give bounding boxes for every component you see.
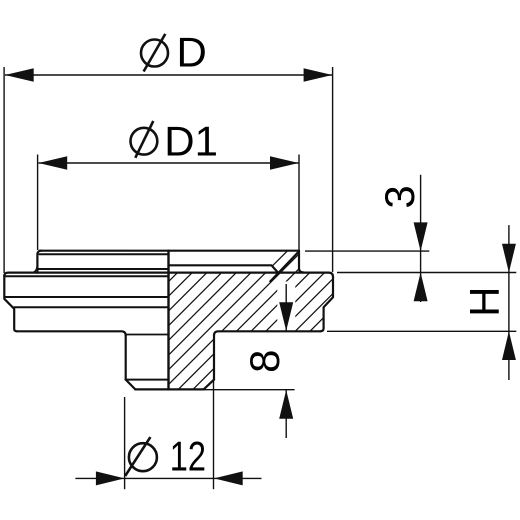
extension line left for D1	[37, 155, 39, 251]
label diameter 12	[125, 432, 206, 479]
left outer edge of rim	[4, 276, 17, 332]
dimension line 8 upper part	[285, 284, 287, 331]
arrowhead D1 left	[39, 156, 68, 170]
hub left edge	[125, 336, 127, 380]
svg-text:12: 12	[170, 432, 206, 479]
bottom face left of hub	[17, 331, 126, 335]
svg-text:H: H	[461, 287, 508, 317]
dimension 8 (hub protrusion)	[204, 284, 295, 438]
extension line right for D1	[298, 155, 300, 251]
cap band bottom edge with chamfer (section)	[169, 265, 278, 272]
rim top chamfer edge line (left view half)	[4, 275, 168, 277]
svg-text:D: D	[177, 29, 207, 76]
label diameter D	[141, 29, 207, 76]
extension line hub bottom to right	[204, 389, 295, 391]
boss base edge line (left view half)	[37, 268, 168, 270]
extension line rim top to right	[337, 272, 516, 274]
extension line left for 12	[124, 397, 126, 489]
dimension H (rim height)	[327, 225, 516, 380]
section boundary center line	[167, 251, 169, 390]
white halo behind dim 8 line over hatching	[277, 282, 295, 331]
svg-text:8: 8	[241, 350, 288, 373]
bold hatch diagonal at boss corner	[270, 252, 299, 283]
arrowhead D right	[304, 68, 333, 82]
dimension line D1	[39, 162, 299, 164]
hatching (45 deg section lines)	[30, 240, 431, 420]
hub chamfer edge line (left view half)	[126, 379, 169, 381]
extension line boss top to right	[305, 250, 429, 252]
arrowhead 8 down	[279, 302, 293, 331]
dimension 12 (hub diameter)	[75, 381, 261, 489]
extension line bottom face to right	[327, 330, 516, 332]
label diameter D1	[131, 117, 219, 164]
boss base fillet arc (left view half)	[31, 263, 38, 273]
arrowhead 12 right	[214, 471, 243, 485]
rim top edge line	[4, 273, 333, 277]
arrowhead 3 up	[414, 273, 428, 302]
cone bottom silhouette line (left view half)	[14, 306, 168, 308]
hub fillet tangent line (left view half)	[127, 334, 169, 336]
right outer edge of rim (section)	[320, 277, 333, 331]
boss top edge line	[40, 250, 300, 252]
dimension 3 (boss height)	[305, 175, 516, 302]
boss right edge (section)	[299, 251, 303, 273]
dimension D1	[38, 155, 299, 251]
extension line right for 12	[213, 381, 215, 489]
boss left edge with fillets	[37, 251, 41, 273]
hub right edge (section)	[213, 336, 215, 380]
dimension D	[4, 67, 333, 273]
arrowhead 3 down	[414, 222, 428, 251]
dimension line 12	[75, 477, 261, 479]
arrowhead 8 up	[279, 390, 293, 419]
arrowhead D1 right	[270, 156, 299, 170]
boss top chamfer edge line (left view half)	[39, 253, 168, 255]
arrowhead D left	[5, 68, 34, 82]
bottom face right of hub (section)	[214, 331, 320, 335]
svg-text:D1: D1	[164, 117, 218, 164]
hub bottom face	[135, 388, 203, 390]
hub bottom chamfer right (section)	[204, 380, 214, 390]
svg-text:3: 3	[376, 185, 423, 208]
dimension line D	[5, 74, 332, 76]
arrowhead H up	[502, 331, 516, 360]
dimension line 8 lower part	[285, 390, 287, 438]
arrowhead H down	[502, 244, 516, 273]
dimension line 3	[420, 175, 422, 302]
hub bottom chamfer left	[126, 380, 136, 390]
extension line left for D	[3, 67, 5, 273]
dimension line H	[508, 225, 510, 380]
arrowhead 12 left	[96, 471, 125, 485]
cone top silhouette line (left view half)	[5, 296, 169, 298]
extension line right for D	[332, 67, 334, 272]
